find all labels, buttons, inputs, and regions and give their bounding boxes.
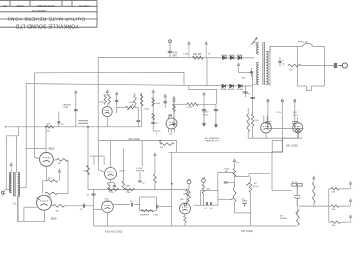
resistor R50 <box>313 182 316 204</box>
B+ test arrow B <box>205 42 208 58</box>
resistor R3 68K <box>202 184 205 194</box>
reverb cap C24 <box>157 205 158 209</box>
cathode rail wire <box>248 137 302 139</box>
secondary top wire <box>266 51 270 53</box>
V2A cathode wire <box>107 213 109 226</box>
filter cap2 wire <box>203 104 205 120</box>
fsw input wire <box>194 204 201 206</box>
speaker jack tip <box>1 191 4 194</box>
svg-text:CARBON: CARBON <box>63 103 72 106</box>
V2 grid resistor column <box>87 127 89 190</box>
cap stub wire <box>228 182 235 184</box>
vol top wire right <box>249 173 270 175</box>
tube V4 <box>40 153 54 167</box>
phase arrow a base <box>348 188 351 190</box>
B+ arrow node C <box>173 96 176 100</box>
V1B cathode wire <box>106 117 108 127</box>
ground below node C <box>173 121 176 127</box>
svg-text:REVERB: REVERB <box>140 214 149 216</box>
col4 wire <box>173 102 175 119</box>
tube V1B <box>102 107 112 117</box>
secondary bottom wire <box>266 83 270 85</box>
plate res column wire <box>141 93 143 127</box>
V2 cathode wire <box>110 180 112 183</box>
svg-text:500K: 500K <box>126 186 131 188</box>
tone pot wiper arrow <box>127 104 133 110</box>
svg-text:100K: 100K <box>99 102 104 104</box>
mid capacitor <box>136 120 140 121</box>
reverb tank coil <box>141 210 154 212</box>
output transformer T1 core <box>14 172 15 197</box>
cap C1 lead wire <box>169 43 171 58</box>
treble cap lead <box>116 95 118 113</box>
Rc left wire <box>329 221 331 223</box>
capacitor C2 <box>57 122 60 123</box>
B+ arrow reverb <box>154 153 157 159</box>
NFB left vertical wire <box>42 181 44 194</box>
fuse F1 <box>302 43 313 46</box>
svg-text:220K: 220K <box>83 171 88 173</box>
grid feed wire down <box>217 173 219 191</box>
R32 top wire <box>247 108 249 114</box>
tube V3 <box>166 118 177 129</box>
resistor R24 <box>108 188 119 191</box>
capacitor col3 <box>163 102 167 103</box>
svg-text:500MA: 500MA <box>236 54 243 57</box>
resistor R33 <box>288 64 301 67</box>
screen cap C32 <box>250 97 254 98</box>
R4 bottom wire <box>186 196 188 203</box>
ground below C30 <box>214 122 217 128</box>
V7 cathode wire <box>297 133 299 138</box>
cathode cap C21 <box>113 186 116 187</box>
screen drop vertical wire <box>67 160 69 194</box>
title block frame <box>0 1 97 28</box>
svg-text:REVERB: REVERB <box>136 171 145 173</box>
footswitch box 2 <box>201 191 218 206</box>
svg-text:4.5V (NO LOAD): 4.5V (NO LOAD) <box>105 231 122 234</box>
phase arrow c base <box>348 221 351 223</box>
switch stub wire <box>250 43 252 45</box>
tube V5 <box>37 195 52 210</box>
capacitor C1 <box>168 51 172 52</box>
fsw cap a <box>206 202 207 205</box>
heater bus wire <box>268 128 304 130</box>
svg-text:(NO LOAD): (NO LOAD) <box>241 230 253 233</box>
R50 bottom wire <box>313 204 315 207</box>
ground below C30b <box>203 121 206 127</box>
resistor R40 <box>57 159 69 162</box>
svg-text:12AX7: 12AX7 <box>104 200 110 203</box>
reverb tank box <box>140 197 157 211</box>
resistor R7 <box>233 187 236 202</box>
svg-text:NWARD 8.A: NWARD 8.A <box>32 9 47 13</box>
AC plug body <box>334 63 337 68</box>
jack1 sleeve symbol <box>186 200 189 203</box>
arrow col3 <box>164 94 167 97</box>
phase resistor Rb <box>331 205 339 208</box>
V1B plate twin res top wire <box>105 94 109 96</box>
V2A input cap column <box>93 190 95 226</box>
svg-text:(NO LOAD): (NO LOAD) <box>128 138 140 141</box>
mid cap stub <box>135 107 138 109</box>
choke right wire <box>198 103 216 105</box>
NFB resistor R41 <box>47 180 57 183</box>
V2 feed vertical wire <box>98 141 100 170</box>
step wire left <box>6 127 18 190</box>
preamp plate rail wire <box>99 140 177 142</box>
R13 top tick <box>134 93 136 95</box>
R43 right wire <box>65 205 94 207</box>
R20 right leg wire <box>176 141 178 145</box>
vol wiper arrow <box>246 183 249 185</box>
resistor R15 <box>152 98 155 106</box>
resistor R16 <box>152 113 155 119</box>
NFB bottom right wire <box>58 192 68 194</box>
V4 grid arrow <box>35 157 39 158</box>
choke L1 <box>187 103 198 106</box>
heater wire c <box>294 102 296 129</box>
grid feed wire left <box>218 172 235 174</box>
svg-text:L.S.: L.S. <box>13 204 17 206</box>
power transformer T2 core <box>263 42 265 85</box>
resistor R11 <box>108 95 110 105</box>
line cap lead <box>251 68 253 77</box>
svg-text:GUITAR MATE REVERB YGM1: GUITAR MATE REVERB YGM1 <box>7 15 85 21</box>
reverb box right wire <box>159 206 172 208</box>
V4 plate feed wire <box>26 147 46 149</box>
B+ arrow vol <box>233 159 236 164</box>
diode node wire down <box>238 68 240 72</box>
treble capacitor <box>115 100 118 101</box>
screen rail corner wire <box>282 138 284 152</box>
jack1 wire <box>188 184 190 189</box>
B+ arrow col2 <box>152 90 155 94</box>
svg-text:450V: 450V <box>203 114 209 116</box>
resistor R1 56K <box>46 126 54 129</box>
reservoir cap wire <box>245 86 247 97</box>
V5 bottom L wire <box>18 197 44 222</box>
V2A input wire <box>94 208 103 210</box>
V7 plate stub <box>297 117 299 123</box>
svg-text:.02: .02 <box>210 208 213 210</box>
Ra left wire <box>329 188 331 190</box>
output transformer T1 primary winding <box>10 173 12 193</box>
svg-text:(VOL): (VOL) <box>254 186 260 188</box>
svg-text:1M: 1M <box>280 216 283 218</box>
resistor R2 1M <box>188 189 191 201</box>
fsw wiper wire <box>218 198 231 200</box>
trem wire y206 <box>299 205 329 207</box>
trem electrolytic cap <box>294 186 300 206</box>
coupling cap col4 <box>169 115 172 116</box>
B+ arrow left <box>75 90 78 93</box>
svg-text:UNIT: UNIT <box>153 214 158 216</box>
col2 wire <box>152 94 154 131</box>
svg-text:V1A: V1A <box>180 198 184 201</box>
ps inner vertical wire <box>296 46 298 86</box>
svg-text:KHC YB: KHC YB <box>79 4 89 8</box>
resistor R25 <box>125 188 135 191</box>
svg-text:500K: 500K <box>225 169 230 171</box>
power switch S2 jog <box>307 86 312 91</box>
filter capacitor C30b <box>202 110 206 111</box>
resistor R10 <box>104 95 106 105</box>
col4 side stub <box>168 115 170 119</box>
svg-text:COMP: COMP <box>63 107 70 109</box>
arrow above treble cap <box>115 92 118 95</box>
B+ arrow NFB <box>58 169 61 179</box>
svg-text:10M: 10M <box>332 225 336 227</box>
V1 cathode wire <box>184 214 186 216</box>
svg-text:6BQ5: 6BQ5 <box>51 219 58 221</box>
svg-text:(NO LOAD): (NO LOAD) <box>286 145 298 148</box>
heater terminal c <box>294 100 296 102</box>
cap C1 terminal <box>169 40 172 43</box>
B+ arrow col4 <box>173 99 176 102</box>
diode D5 <box>230 84 234 88</box>
svg-text:10M: 10M <box>332 192 336 194</box>
line capacitor C33 <box>250 72 253 73</box>
diode D1 <box>223 56 227 60</box>
svg-text:270K: 270K <box>109 192 114 194</box>
phase resistor Ra <box>331 188 339 191</box>
R13 bottom tick <box>134 105 136 108</box>
R32 bottom wire <box>247 132 249 138</box>
rail left tick <box>5 126 7 128</box>
blocking cap C40 <box>83 204 84 208</box>
B+ takeoff wire <box>239 71 253 73</box>
filter capacitor C30 <box>214 110 218 111</box>
resistor R4 <box>186 190 188 197</box>
heater hum cap cluster b <box>292 122 297 129</box>
svg-text:TONE: TONE <box>129 102 135 104</box>
V5 left vertical wire <box>23 207 25 222</box>
svg-text:3KV: 3KV <box>173 55 178 58</box>
output transformer T1 secondary winding <box>18 173 20 197</box>
svg-text:ETAD: ETAD <box>17 4 24 8</box>
reverb pot wire lower <box>154 183 156 189</box>
coupling cap C22 <box>92 194 96 195</box>
reservoir capacitor C31 <box>243 92 247 93</box>
arrow above cap 204 <box>203 92 206 104</box>
HT secondary rail wire <box>98 56 254 59</box>
svg-text:12AX7: 12AX7 <box>119 170 126 173</box>
input jack 2 ring <box>202 179 206 183</box>
B+ arrow at diode node <box>237 63 240 68</box>
reverb mid vertical wire <box>171 152 173 226</box>
choke wire <box>174 103 187 105</box>
V6 grid stub a <box>263 116 265 123</box>
svg-text:NOITPIRCSED: NOITPIRCSED <box>37 4 55 8</box>
svg-text:1M: 1M <box>254 183 257 185</box>
speed pot top wire <box>297 206 299 212</box>
svg-text:270K: 270K <box>126 192 131 194</box>
OT secondary bottom wire <box>17 197 19 222</box>
speed pot R51 <box>296 212 299 225</box>
resistor R21 <box>87 165 90 175</box>
heater terminal b <box>281 100 283 102</box>
svg-text:1W: 1W <box>47 131 50 133</box>
B+ test arrow A <box>188 42 191 58</box>
svg-text:6.3V: 6.3V <box>277 112 282 114</box>
screen feed lower wire <box>252 126 254 138</box>
tube V2 <box>105 168 117 180</box>
V4 cathode wire <box>45 166 47 181</box>
primary bottom stub <box>252 83 256 85</box>
tube V6 <box>261 122 272 133</box>
phase arrow b <box>349 199 352 206</box>
resistor R13 <box>134 95 136 105</box>
R20 left leg wire <box>159 141 161 145</box>
phase ladder left rail <box>328 189 330 222</box>
svg-text:6BQ5: 6BQ5 <box>49 148 56 150</box>
R7 bottom wire right <box>235 212 251 214</box>
svg-text:40/40: 40/40 <box>203 112 209 114</box>
svg-text:500MA: 500MA <box>228 88 235 91</box>
phase arrow c <box>349 215 352 222</box>
ps box left wire <box>269 46 271 85</box>
V5 grid arrow <box>37 198 41 200</box>
jack2 wire <box>203 182 205 184</box>
rail connector wire <box>176 144 178 152</box>
long vertical x34 <box>34 73 36 157</box>
V2A output wire <box>113 204 130 206</box>
NFB resistor R42 <box>45 192 58 195</box>
pilot lamp PL1 <box>296 129 300 133</box>
R22 column wire <box>122 149 124 182</box>
svg-text:L 500K: L 500K <box>136 168 143 170</box>
svg-text:.02: .02 <box>204 208 207 210</box>
footswitch box <box>272 141 282 152</box>
power transformer T2 secondary winding <box>266 52 268 85</box>
reverb pot feed vertical <box>141 141 143 167</box>
tube V2A <box>102 201 114 213</box>
mid cap lead2 <box>137 122 139 127</box>
cathode cap top wire <box>109 182 115 184</box>
jack1 sleeve ring <box>184 203 186 205</box>
reverb pot wire upper <box>154 159 156 175</box>
preamp ground rail wire <box>7 126 141 128</box>
tube V7 <box>293 123 303 133</box>
left dropper cap <box>74 110 78 111</box>
cathode cap cluster <box>242 201 247 207</box>
resistor R31 <box>251 114 254 126</box>
wire jog at x184 <box>183 72 185 84</box>
heater hum cap cluster a <box>265 122 270 129</box>
diode D4 <box>222 84 226 88</box>
V4 screen wire <box>53 159 56 161</box>
heater wire a <box>267 102 269 129</box>
V2 plate stub wire <box>110 141 112 168</box>
second step vertical wire <box>16 136 18 173</box>
svg-text:500MA: 500MA <box>229 54 236 57</box>
phase resistor Rc <box>331 221 340 224</box>
svg-text:56K: 56K <box>47 123 51 125</box>
power transformer T2 primary lower winding <box>257 62 259 84</box>
resistor R14 <box>140 94 143 106</box>
fuse to jack wire <box>313 45 324 47</box>
svg-text:6.3V: 6.3V <box>293 112 298 114</box>
svg-text:10K: 10K <box>160 147 164 149</box>
AC plug tip <box>339 63 348 68</box>
heater terminal a <box>267 100 269 102</box>
svg-text:ON: ON <box>3 4 7 8</box>
resistor R6 <box>233 169 236 177</box>
death capacitor C34 <box>278 61 281 62</box>
phase arrow a <box>349 182 352 189</box>
long vertical x26 <box>25 84 27 188</box>
svg-text:FUSE 2A: FUSE 2A <box>298 41 308 44</box>
input jack 1 ring <box>187 180 191 184</box>
screen rail long wire <box>169 151 283 153</box>
svg-text:L1 4H: L1 4H <box>187 107 193 109</box>
trem cap pair <box>292 183 302 186</box>
resistor R20 <box>160 143 174 146</box>
filter node C wire <box>173 101 175 121</box>
coupling cap col2 <box>151 122 155 123</box>
terminal box outline <box>90 156 104 165</box>
Rb left wire <box>329 205 331 207</box>
resistor R5 <box>184 216 187 223</box>
fsw cap b <box>211 202 212 205</box>
tone pot R12 <box>126 106 136 109</box>
rail junction vertical wire <box>206 58 208 86</box>
cap col3 lead <box>164 98 166 109</box>
mid cap lead <box>137 108 139 120</box>
speaker jack sleeve <box>2 193 5 195</box>
diode D6 <box>238 84 242 88</box>
reverb cap column <box>139 173 141 180</box>
arrow R50 <box>313 176 316 182</box>
jack feed wire <box>301 65 325 67</box>
V5 left wire <box>24 206 37 208</box>
cathode cap leads <box>114 183 116 186</box>
R5 bottom wire <box>184 223 186 227</box>
vol mid wire <box>234 176 236 187</box>
pilot bottom wire <box>282 137 298 139</box>
svg-text:500MA: 500MA <box>220 88 227 91</box>
input jack 1 pin <box>188 179 190 180</box>
V5 plate wire <box>52 205 54 207</box>
left cap pair lines <box>78 121 88 123</box>
NFB arrow stub <box>59 179 61 181</box>
phase arrow b base <box>348 205 351 207</box>
fuse rail wire <box>270 45 302 47</box>
svg-text:500MA: 500MA <box>221 54 228 57</box>
resistor R32 <box>247 114 250 132</box>
screen feed wire <box>252 72 254 114</box>
resistor R23 <box>108 183 110 192</box>
col2 bottom stub <box>153 130 160 132</box>
death cap lead <box>279 57 281 67</box>
speed pot wiper arrow <box>296 210 300 214</box>
x26 bottom wire <box>18 187 26 189</box>
svg-text:10K 5W: 10K 5W <box>193 54 202 56</box>
svg-text:2.2M: 2.2M <box>183 54 188 56</box>
jack2 lower wire <box>203 194 205 206</box>
pilot lamp wire <box>297 133 299 138</box>
input jack 2 pin <box>202 177 204 178</box>
svg-text:100K: 100K <box>144 109 149 111</box>
heater wire b <box>281 102 283 153</box>
filter cap wire <box>215 104 217 121</box>
V4 plate feed vertical <box>45 127 47 153</box>
svg-text:V2A: V2A <box>104 197 109 200</box>
Ra right wire <box>339 188 348 190</box>
power transformer T2 primary upper winding <box>257 43 259 55</box>
C23 right wire <box>134 204 140 206</box>
